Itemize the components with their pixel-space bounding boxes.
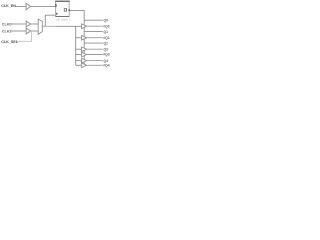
svg-text:clk_latch_i: clk_latch_i (56, 17, 70, 21)
svg-text:CLK0: CLK0 (2, 23, 12, 27)
svg-text:Q4: Q4 (104, 59, 109, 63)
svg-text:#Q3: #Q3 (103, 53, 109, 57)
svg-text:#Q0: #Q0 (103, 24, 109, 28)
svg-text:Q1: Q1 (104, 30, 109, 34)
svg-text:Q2: Q2 (104, 41, 109, 45)
svg-text:Q3: Q3 (104, 47, 109, 51)
svg-text:#Q4: #Q4 (103, 64, 109, 68)
svg-text:Q0: Q0 (104, 18, 109, 22)
svg-text:CLK1: CLK1 (2, 30, 12, 34)
svg-text:CLK_EN: CLK_EN (1, 4, 16, 8)
svg-text:#Q1: #Q1 (103, 36, 109, 40)
svg-text:CLK_SEL: CLK_SEL (1, 40, 19, 44)
